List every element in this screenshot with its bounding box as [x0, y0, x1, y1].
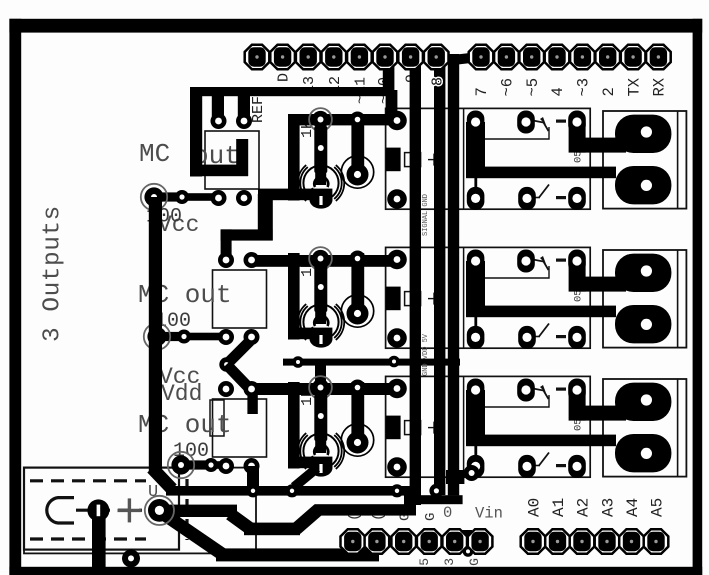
terminal X2 pad top	[615, 254, 671, 292]
via bottom 471	[464, 465, 480, 481]
relay K2 coil square pad	[386, 287, 401, 311]
wire: relay K3 thin link to NC pad	[474, 446, 477, 467]
wire: relay K1 NO tab	[577, 138, 626, 153]
terminal block X3 outline	[603, 379, 686, 477]
svg-text:G: G	[467, 558, 482, 566]
jack pad 2 (ring)	[145, 496, 174, 525]
relay K3 inner divider	[463, 376, 465, 477]
relay K1 outline	[386, 108, 591, 209]
jack plus polarity mark	[118, 509, 142, 512]
wire: ch1-ch2 link drop	[221, 229, 232, 262]
wire: relay K1 thin link to NC pad	[474, 178, 477, 199]
resistor R6 100 body channel3	[181, 460, 211, 469]
diode D1 body circle	[341, 156, 373, 188]
transistor Q1 swirl	[314, 177, 328, 187]
svg-text:A0: A0	[526, 498, 544, 517]
relay K1 coil pad top	[387, 111, 407, 131]
wire: stub down to R5 via	[315, 360, 326, 388]
wire: channel2 bottom bar	[288, 328, 332, 340]
diode D2 top pad	[350, 251, 366, 267]
wire: feeder right arm	[236, 139, 248, 176]
resistor R5 1K mid pad hole	[318, 413, 324, 419]
svg-text:~3: ~3	[575, 78, 593, 97]
wire: step column at x404	[404, 486, 416, 516]
terminal X3 pad bottom	[615, 434, 671, 472]
svg-text:A1: A1	[550, 498, 568, 517]
relay K3 contact symbol lines	[476, 395, 549, 407]
svg-text:3 Outputs: 3 Outputs	[40, 205, 67, 342]
wire: left trace diagonal into bar	[152, 468, 172, 489]
relay K2 coil pad top	[387, 250, 407, 270]
relay K2 contact symbol lines	[476, 266, 549, 278]
resistor R1 1K mid pad hole	[318, 145, 324, 151]
svg-text:MC: MC	[139, 139, 170, 169]
wire: 100-resistor link channel3	[181, 461, 226, 469]
terminal block X1 outline	[603, 111, 686, 209]
terminal block X3 inner line	[677, 379, 679, 477]
transistor Q2 body circle	[303, 304, 338, 339]
wire: trace B elbow	[446, 470, 464, 484]
optocoupler U3 outline	[213, 399, 267, 457]
svg-text:Vdd: Vdd	[161, 381, 202, 407]
diode D3 trace bar	[351, 382, 364, 443]
resistor R1 1K body	[314, 126, 327, 173]
wire: channel3 bottom bar	[288, 457, 332, 469]
svg-text:7: 7	[473, 87, 491, 96]
wire: ch3 arm below pad	[247, 389, 257, 414]
wire: diag Q3 to pad	[294, 468, 317, 487]
resistor R5 1K body	[314, 394, 327, 441]
transistor Q2 swirl	[314, 316, 328, 326]
header J1 labels (AREF..8)	[250, 73, 446, 123]
relay K1 contact symbol lines	[476, 127, 549, 139]
wire: diag down to bottom bar	[165, 515, 222, 554]
resistor R2 100 body channel1	[154, 192, 182, 201]
svg-text:TX: TX	[625, 77, 643, 96]
wire: relay K2 thin link to NC pad	[474, 317, 477, 338]
svg-text:REF: REF	[250, 96, 267, 123]
svg-text:0: 0	[443, 504, 452, 522]
relay K3 coil pad bottom	[387, 457, 407, 477]
wire: diag left step	[230, 514, 252, 530]
relay K2 outline	[386, 247, 591, 348]
wire: relay K3 COM drop	[466, 390, 485, 446]
wire: channel1 top bar	[288, 114, 404, 125]
jack dashed center pin	[76, 509, 142, 512]
wire: 100-resistor link channel1	[154, 193, 218, 201]
svg-text:RX: RX	[651, 77, 669, 96]
svg-text:G: G	[423, 513, 439, 521]
resistor R3 1K top via	[309, 247, 332, 270]
svg-text:A5: A5	[649, 498, 667, 517]
header J2 digital pins 7-RX	[469, 45, 671, 70]
jack dashed body bottom	[30, 537, 146, 540]
wire: 100-resistor link channel2	[157, 333, 226, 341]
svg-text:D: D	[276, 73, 293, 82]
wire: thin trace y362	[283, 359, 460, 366]
terminal X1 pad bottom	[615, 166, 671, 204]
wire: ch1-ch2 link bar	[221, 229, 273, 240]
optocoupler U1 outline	[205, 131, 259, 189]
wire: channel3 left vertical	[288, 382, 300, 469]
wire: channel2 top bar	[251, 255, 404, 267]
via bottom 292	[285, 484, 298, 497]
wire: drop from bar to relay1 coil	[386, 90, 398, 120]
wire: R to Q1	[315, 170, 326, 185]
wire: bar y522	[244, 523, 300, 536]
wire: stub between power GND pins	[460, 530, 472, 552]
relay K3 outline	[386, 376, 591, 477]
transistor Q2 hatch arcs	[298, 304, 344, 340]
jack pad 3	[122, 549, 140, 567]
wire: drop from pin ~10	[383, 63, 395, 96]
jack pad 1 (slit)	[87, 499, 109, 521]
header J4 analog pins A0-A5	[521, 529, 669, 554]
relay K1 plus mark	[428, 159, 440, 161]
via ch2-ch3 link	[219, 357, 233, 371]
relay K2 contact pads	[467, 250, 586, 349]
svg-text:Vin: Vin	[475, 505, 503, 523]
board edge frame	[9, 19, 21, 575]
terminal block X2 outline	[603, 250, 686, 348]
resistor R3 1K mid pad hole	[318, 284, 324, 290]
transistor Q3 hatch arcs	[298, 433, 344, 469]
wire: main left Vcc trace	[149, 197, 162, 474]
transistor Q2 bottom pad	[310, 330, 333, 347]
DC power jack J5 outline outer	[24, 468, 256, 554]
header J4 labels A0-A5	[526, 498, 667, 517]
capacitor C1 outline (channel3)	[210, 400, 224, 436]
terminal X3 pad top	[615, 383, 671, 421]
header J1 digital pins AREF-8	[245, 45, 449, 70]
diode D2 body circle	[341, 295, 373, 327]
wire: bottom bar y548	[216, 548, 379, 561]
diode D1 top pad	[350, 112, 366, 128]
wire: relay K2 big bar to terminal	[466, 306, 616, 318]
wire: relay K2 NO tab	[577, 277, 626, 292]
via bottom 397	[390, 484, 403, 497]
relay K2 plus mark	[428, 298, 440, 300]
relay K2 inner divider	[463, 247, 465, 348]
resistor R2 pad left	[141, 184, 167, 210]
via on y362 trace left	[292, 356, 304, 368]
svg-text:SIGNAL GND: SIGNAL GND	[422, 194, 430, 236]
optocoupler U2 outline	[213, 270, 267, 328]
wire: signal trace B (pin 8 down)	[434, 64, 445, 495]
relay K1 suppressor rect	[405, 153, 421, 167]
via bottom 436	[429, 484, 443, 498]
diode D1 trace bar	[351, 114, 364, 175]
transistor Q3 swirl	[314, 445, 328, 455]
diode D2 trace bar	[351, 253, 364, 314]
relay K3 suppressor rect	[405, 421, 421, 435]
wire: stub U3 to bar	[247, 466, 259, 490]
header J2 labels (7..RX)	[473, 77, 668, 96]
wire: channel2 left vertical	[288, 253, 300, 340]
wire: bar y495 right	[408, 495, 463, 504]
optocoupler U2 pads	[218, 252, 260, 345]
wire: R to Q3	[315, 438, 326, 453]
wire: channel1 bottom bar	[258, 189, 332, 201]
optocoupler U3 pads	[218, 381, 260, 474]
svg-text:~5: ~5	[524, 78, 542, 97]
transistor Q1 bottom pad	[310, 191, 333, 208]
jack barrel arc	[47, 498, 74, 523]
header J3 power labels	[347, 504, 503, 523]
wire: jack slit pad drop	[92, 505, 106, 567]
jack dashed right edge	[185, 479, 188, 540]
svg-text:A3: A3	[600, 498, 618, 517]
wire: relay K1 COM drop	[466, 122, 485, 178]
via on y362 trace right	[388, 356, 400, 368]
wire: diag up mid	[296, 509, 319, 529]
wire: bar y504 mid	[315, 504, 408, 515]
wire: signal trace A (pin 9 down)	[410, 64, 421, 505]
svg-text:2: 2	[600, 87, 618, 96]
jack dashed body top	[30, 479, 146, 482]
wire: long bar y486	[166, 486, 408, 496]
relay K1 inner divider	[463, 108, 465, 209]
diode D2 bottom pad	[347, 303, 369, 325]
relay K3 coil square pad	[386, 416, 401, 440]
wire: stub pin7 to trace C	[453, 57, 479, 60]
resistor R6 pad right	[204, 458, 218, 472]
optocoupler U1 pads	[211, 113, 253, 206]
resistor R4 pad right	[177, 330, 191, 344]
wire: relay K3 NO tab	[577, 406, 626, 421]
via between power pins	[463, 546, 474, 557]
wire: ch2 to ch3 link diagonal 1	[227, 341, 251, 365]
wire: stub to U1 pin2	[238, 95, 250, 122]
transistor Q3 bottom pad	[310, 459, 333, 476]
wire: relay K1 NO drop	[569, 122, 586, 153]
resistor R2 pad right	[175, 190, 189, 204]
wire: ch2 to ch3 link diagonal 2	[227, 365, 251, 390]
diode D3 body circle	[341, 424, 373, 456]
diode D1 bottom pad	[347, 164, 369, 186]
relay K2 suppressor rect	[405, 292, 421, 306]
relay K3 plus mark	[428, 427, 440, 429]
wire: top feeder bar	[190, 87, 394, 96]
wire: relay K2 COM drop	[466, 261, 485, 317]
via bottom 253	[246, 484, 259, 497]
wire: signal trace C (pin 7 down)	[448, 54, 459, 495]
transistor Q1 hatch arcs	[298, 165, 344, 201]
wire: feeder left drop	[190, 87, 202, 177]
svg-text:A2: A2	[575, 498, 593, 517]
resistor R4 pad left	[144, 323, 170, 349]
wire: relay K1 big bar to terminal	[466, 167, 616, 179]
wire: feeder bottom bar	[190, 165, 248, 177]
wire: relay K3 NO drop	[569, 390, 586, 421]
terminal X1 pad top	[615, 115, 671, 153]
relay K1 coil square pad	[386, 148, 401, 172]
DC power jack J5 body outline	[24, 468, 179, 550]
wire: jack pad bar right	[159, 505, 237, 517]
resistor R3 1K body	[314, 265, 327, 312]
svg-text:~6: ~6	[499, 78, 517, 97]
terminal X2 pad bottom	[615, 305, 671, 343]
transistor Q1 body circle	[303, 165, 338, 200]
wire: R to Q2	[315, 309, 326, 324]
relay K2 coil pad bottom	[387, 328, 407, 348]
relay K3 coil pad top	[387, 379, 407, 399]
diode D3 top pad	[350, 380, 366, 396]
wire: relay K2 NO drop	[569, 261, 586, 292]
header J3 labels below pins	[417, 558, 482, 574]
resistor R6 pad left	[168, 452, 194, 478]
resistor R4 100 body channel2	[157, 332, 184, 341]
resistor R1 1K top via	[309, 108, 332, 131]
resistor R5 1K top via	[309, 376, 332, 399]
svg-text:GND VDD 5V: GND VDD 5V	[422, 333, 430, 376]
diode D3 bottom pad	[347, 432, 369, 454]
wire: channel1 left vertical	[288, 114, 300, 201]
wire: stub to U1 pin1	[212, 95, 224, 122]
svg-text:4: 4	[549, 87, 567, 96]
relay K3 contact pads	[467, 379, 586, 478]
relay K1 coil pad bottom	[387, 189, 407, 209]
terminal block X2 inner line	[677, 250, 679, 348]
wire: ch1 to ch2 link elbow	[258, 194, 273, 241]
transistor Q3 body circle	[303, 433, 338, 468]
terminal block X1 inner line	[677, 111, 679, 209]
wire: channel3 top bar	[251, 383, 404, 395]
wire: relay K3 big bar to terminal	[466, 435, 616, 447]
relay K1 contact pads	[467, 111, 586, 210]
svg-text:8: 8	[430, 77, 447, 86]
header J3 power pins	[341, 529, 493, 554]
svg-text:A4: A4	[624, 498, 642, 517]
